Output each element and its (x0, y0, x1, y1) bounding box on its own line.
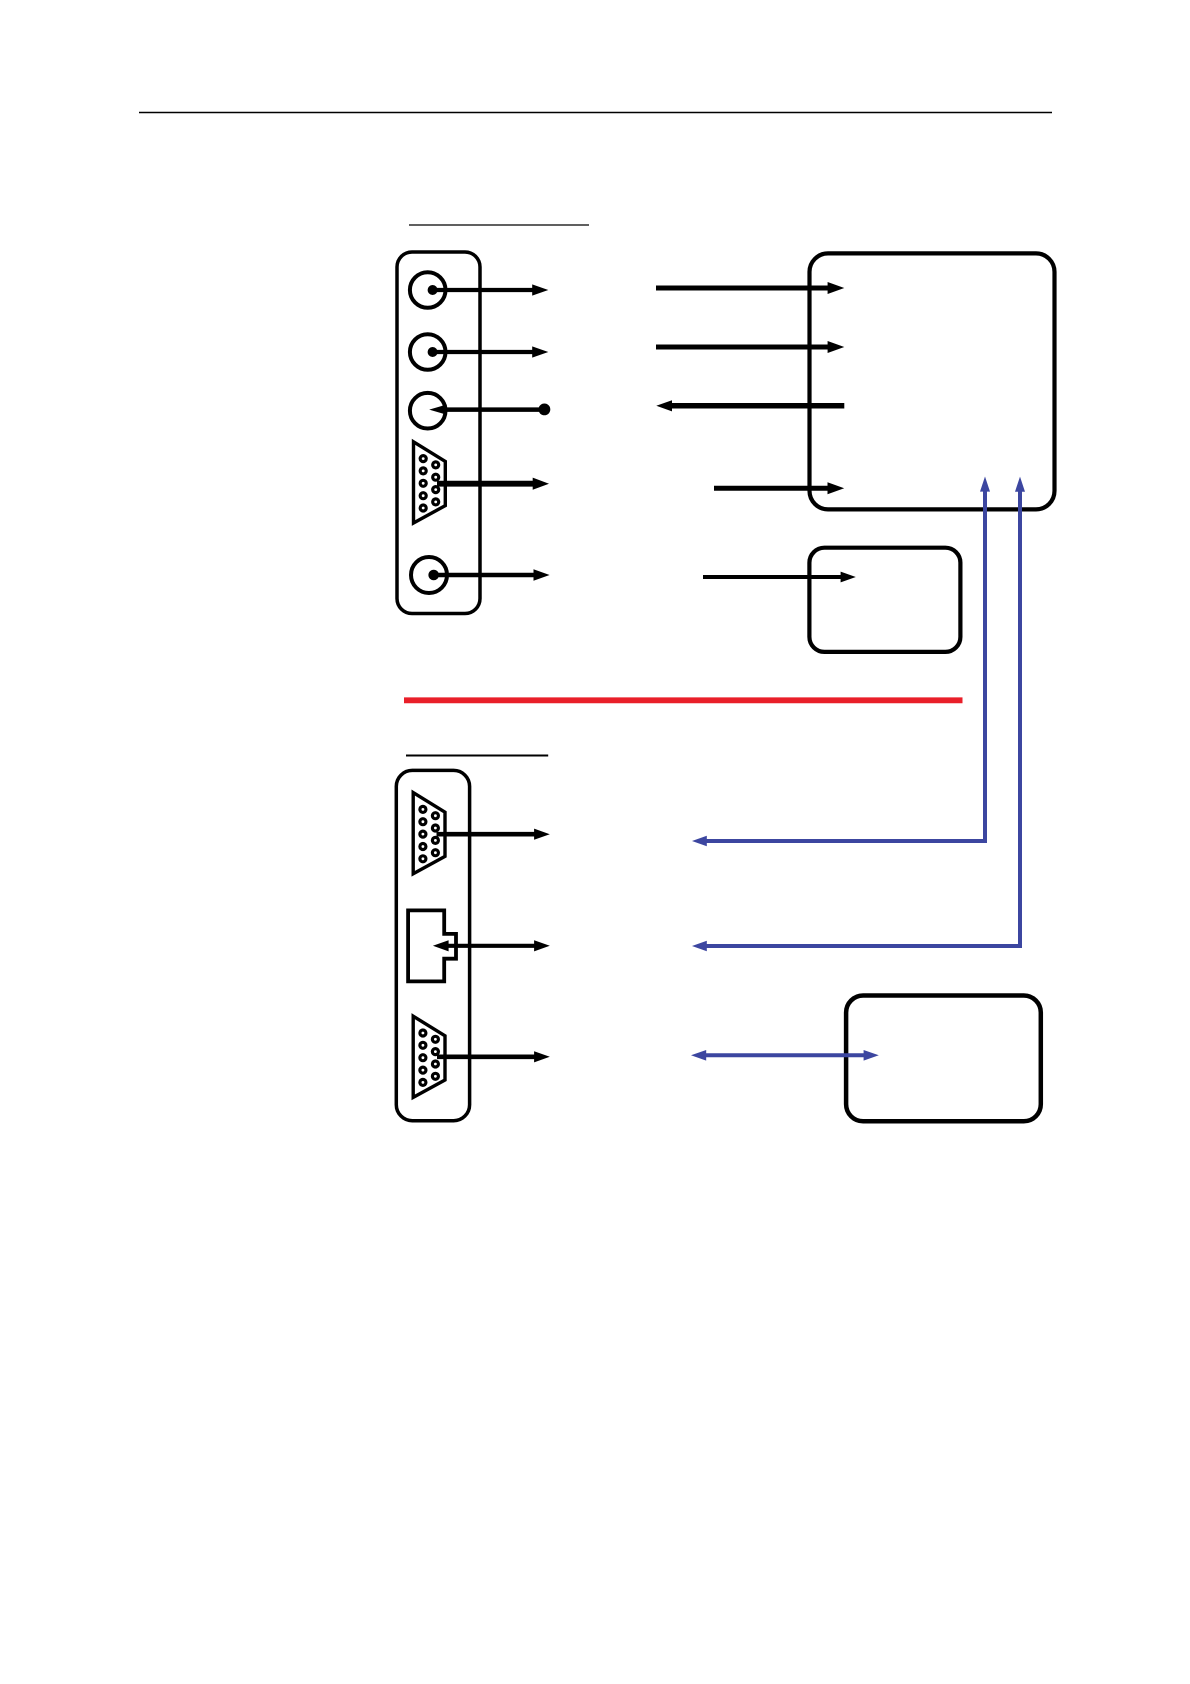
wire/arrow from BNC 2 (433, 346, 549, 357)
wire/arrow from lower DB9 (top) (437, 829, 550, 840)
wire/arrow into small box (703, 572, 856, 583)
upper connector panel outline (397, 252, 480, 614)
wire/arrow into large box (row 4) (714, 482, 844, 494)
BNC connector 1 (410, 272, 446, 308)
wire/arrow into BNC 3 with source dot (429, 404, 550, 416)
wire/arrow from lower DB9 (bottom) (437, 1051, 550, 1062)
wire/arrow from BNC 4 (434, 569, 550, 581)
bidirectional wire/arrow at RJ45 (433, 940, 550, 951)
blue feedback wire 1 (elbow) (692, 477, 990, 847)
wire/arrow into large box (row 2) (656, 341, 844, 353)
blue bidirectional wire to PC box (691, 1050, 879, 1061)
red separator line (404, 697, 963, 703)
RJ45 jack (408, 910, 456, 981)
wire/arrow from BNC 1 (433, 284, 549, 295)
wire/arrow from DB9 (upper) (437, 478, 549, 490)
small device box (middle right) (809, 548, 960, 652)
section 1 title underline (409, 224, 589, 226)
section 2 title underline (406, 755, 548, 757)
BNC connector 4 (411, 557, 447, 593)
PC box (bottom right) (846, 996, 1041, 1122)
DB9 connector (upper panel) (414, 442, 446, 523)
wire/arrow out of large box (row 3, points left) (656, 400, 844, 411)
BNC connector 3 (input) (410, 393, 446, 429)
lower connector panel outline (396, 770, 469, 1120)
large device box (810, 253, 1055, 509)
DB9 connector (lower panel, bottom) (413, 1016, 445, 1097)
wire/arrow into large box (row 1) (656, 282, 844, 294)
header rule (139, 112, 1052, 114)
BNC connector 2 (410, 334, 446, 370)
DB9 connector (lower panel, top) (413, 793, 445, 874)
blue feedback wire 2 (elbow) (692, 477, 1025, 952)
